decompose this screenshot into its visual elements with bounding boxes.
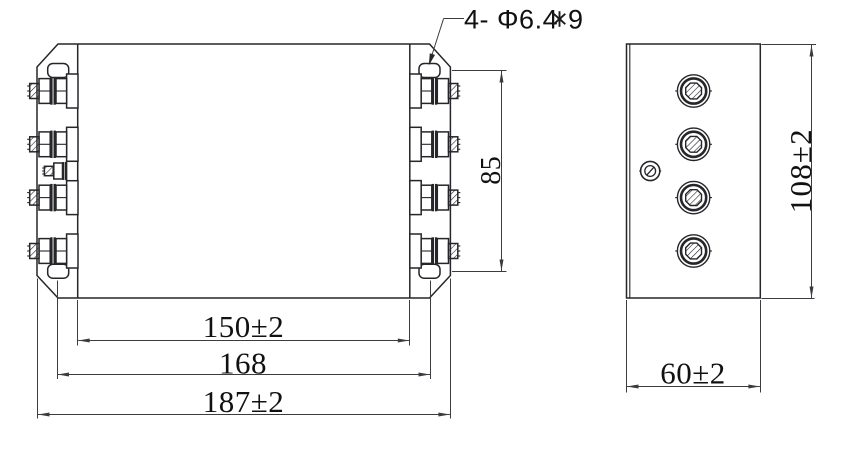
flange fold edge, side view [629,44,631,298]
svg-text:4- Φ6.4: 4- Φ6.4 [464,5,558,35]
dim 168 extension lines [57,281,59,380]
svg-text:9: 9 [568,5,584,35]
load terminal N, right [410,234,461,268]
load terminal L3, right [410,181,461,215]
svg-text:168: 168 [219,346,267,381]
load terminal L2, right [410,127,461,161]
flange edge over screw tips, left [36,84,38,99]
filter case, side view [627,44,761,298]
dim 150±2 line [78,340,409,342]
body side face edge, left [77,44,79,298]
label 4-Φ6.4*9 leader [444,18,464,20]
svg-text:187±2: 187±2 [203,384,285,419]
dim 60±2 extension lines [626,300,628,393]
dim 85 extension lines [452,70,507,72]
mounting slot, bottom-right [419,264,440,278]
line terminal L3, left [27,181,78,215]
svg-text:108±2: 108±2 [783,128,818,213]
terminal screw head 2, side [675,128,712,160]
dim 187±2 extension lines [37,279,39,419]
ground screw head, side [639,161,661,180]
svg-text:60±2: 60±2 [660,356,726,391]
mounting slot, top-right [419,64,440,78]
dim 168 line [58,374,431,376]
dim 60±2 line [627,386,760,388]
line terminal L2, left [27,127,78,161]
dim 108±2 extension lines [762,44,817,46]
svg-text:150±2: 150±2 [203,309,285,344]
dim 150±2 extension lines [77,300,79,346]
filter case outline, top view [37,44,450,298]
body side face edge, right [409,44,411,298]
asterisk glyph [554,11,566,27]
mounting slot, bottom-left [48,264,69,278]
load terminal L1, right [410,74,461,108]
terminal screw head 4, side [675,235,712,267]
svg-text:85: 85 [476,156,507,185]
dim 108±2 line [811,45,813,298]
terminal screw head 3, side [675,181,712,213]
mounting slot, top-left [48,64,69,78]
line terminal N, left [27,234,78,268]
terminal screw head 1, side [675,75,712,107]
dim 187±2 line [38,414,450,416]
ground terminal M4 [42,161,77,180]
line terminal L1, left [27,74,78,108]
dim 85 line [501,71,503,271]
